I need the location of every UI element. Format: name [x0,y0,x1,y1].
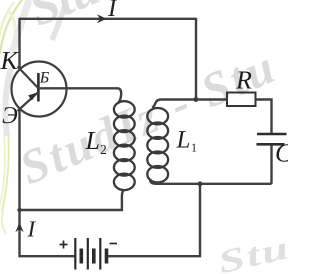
battery GB short plate 3 [105,249,109,264]
svg-text:2: 2 [100,142,107,157]
capacitor C top plate [257,133,287,136]
capacitor C bottom plate [257,143,285,146]
wire: top rail [19,18,197,20]
wire: L2 bottom to feedback node [20,190,124,210]
wire: L1 bottom lead [150,179,271,184]
wire: resistor to capacitor top [256,100,272,134]
current arrow bottom [15,223,23,233]
svg-text:R: R [235,66,252,95]
svg-text:К: К [0,46,20,75]
battery GB long plate 2 [87,238,89,270]
battery GB short plate 2 [92,249,96,264]
wire: junction to resistor [196,98,227,100]
transistor Q1 base bar [37,73,40,102]
svg-text:Б: Б [39,70,50,87]
label minus [110,243,118,245]
junction node tank top [194,97,199,102]
inductor L2 coil [114,101,135,190]
svg-text:L: L [176,127,191,154]
battery GB short plate 1 [80,249,84,264]
transistor Q1 emitter arrow [28,93,37,101]
junction node feedback [17,208,21,212]
label plus [60,241,68,249]
battery GB long plate 1 [74,238,76,270]
wire: capacitor bottom lead [270,146,272,184]
wire: top-right corner down to tank junction [195,18,197,100]
wire: collector to top-left corner [18,19,20,69]
transistor Q1 emitter lead [18,92,39,111]
svg-text:L: L [85,126,100,155]
transistor Q1 collector lead [18,67,39,89]
watermark pale teardrop top-left [12,0,29,54]
svg-text:C: C [275,139,288,168]
wire: battery to bottom-right corner up to L1 bottom [108,184,200,256]
svg-text:Stu: Stu [215,229,288,274]
battery GB long plate 3 [99,238,101,270]
svg-text:Э: Э [2,103,18,129]
svg-text:I: I [27,217,37,242]
inductor L1 coil [147,108,168,182]
current arrow top [97,14,107,23]
wire: emitter down left rail [20,109,75,256]
wire: L1 top lead to junction [152,100,196,108]
junction node L1 bottom [198,181,203,186]
resistor R body [227,93,256,107]
wire: base to L2 top [38,88,121,102]
transistor Q1 circle [12,62,67,117]
svg-text:1: 1 [191,141,197,155]
watermark green logo arc left strip [0,128,9,234]
watermark green logo arc top-left [0,0,22,54]
watermark gray swoosh top-left [52,2,66,40]
watermark gray swoosh left edge [5,68,11,136]
